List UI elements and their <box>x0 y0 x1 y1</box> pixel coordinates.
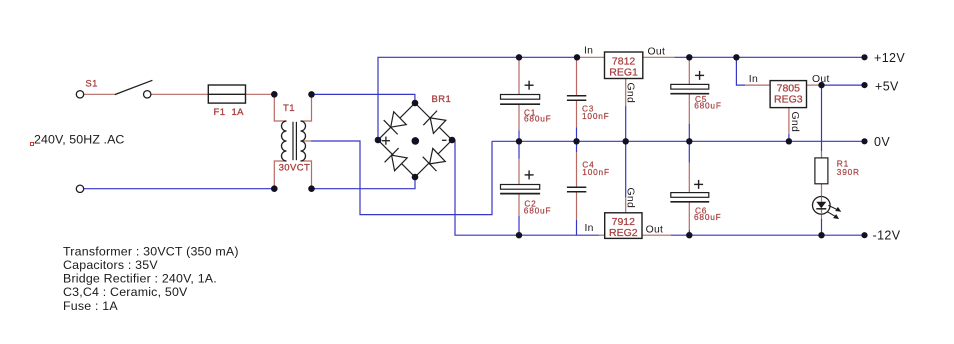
svg-text:100nF: 100nF <box>582 111 610 121</box>
svg-text:390R: 390R <box>837 167 860 177</box>
svg-text:Fuse : 1A: Fuse : 1A <box>63 299 118 313</box>
svg-text:+5V: +5V <box>875 79 899 93</box>
svg-text:30VCT: 30VCT <box>279 163 311 174</box>
svg-text:680uF: 680uF <box>694 101 722 111</box>
svg-text:F1: F1 <box>214 107 226 118</box>
svg-text:240V, 50HZ .AC: 240V, 50HZ .AC <box>34 133 124 147</box>
svg-text:In: In <box>585 223 594 234</box>
svg-text:100nF: 100nF <box>582 167 610 177</box>
svg-text:680uF: 680uF <box>694 212 722 222</box>
svg-text:1A: 1A <box>232 107 245 118</box>
svg-text:S1: S1 <box>85 78 97 89</box>
svg-text:+12V: +12V <box>874 51 905 65</box>
svg-text:680uF: 680uF <box>524 206 552 216</box>
svg-text:Out: Out <box>812 74 830 85</box>
svg-text:Gnd: Gnd <box>624 188 635 209</box>
svg-text:Gnd: Gnd <box>624 83 635 104</box>
svg-text:Out: Out <box>646 225 664 236</box>
svg-text:Transformer : 30VCT (350 mA): Transformer : 30VCT (350 mA) <box>63 244 239 258</box>
svg-text:680uF: 680uF <box>524 114 552 124</box>
svg-text:Capacitors : 35V: Capacitors : 35V <box>63 258 158 272</box>
svg-text:BR1: BR1 <box>432 94 452 105</box>
svg-text:REG2: REG2 <box>609 227 638 239</box>
svg-text:REG1: REG1 <box>609 67 638 79</box>
svg-text:In: In <box>584 45 593 56</box>
svg-text:Gnd: Gnd <box>789 112 800 133</box>
svg-text:REG3: REG3 <box>774 94 803 106</box>
svg-text:-12V: -12V <box>873 229 901 243</box>
svg-text:In: In <box>749 74 758 85</box>
svg-text:C3,C4 : Ceramic, 50V: C3,C4 : Ceramic, 50V <box>63 285 188 299</box>
svg-text:Bridge Rectifier : 240V, 1A.: Bridge Rectifier : 240V, 1A. <box>63 272 217 286</box>
svg-text:Out: Out <box>648 47 666 58</box>
svg-text:0V: 0V <box>874 135 890 149</box>
svg-text:T1: T1 <box>283 103 295 114</box>
